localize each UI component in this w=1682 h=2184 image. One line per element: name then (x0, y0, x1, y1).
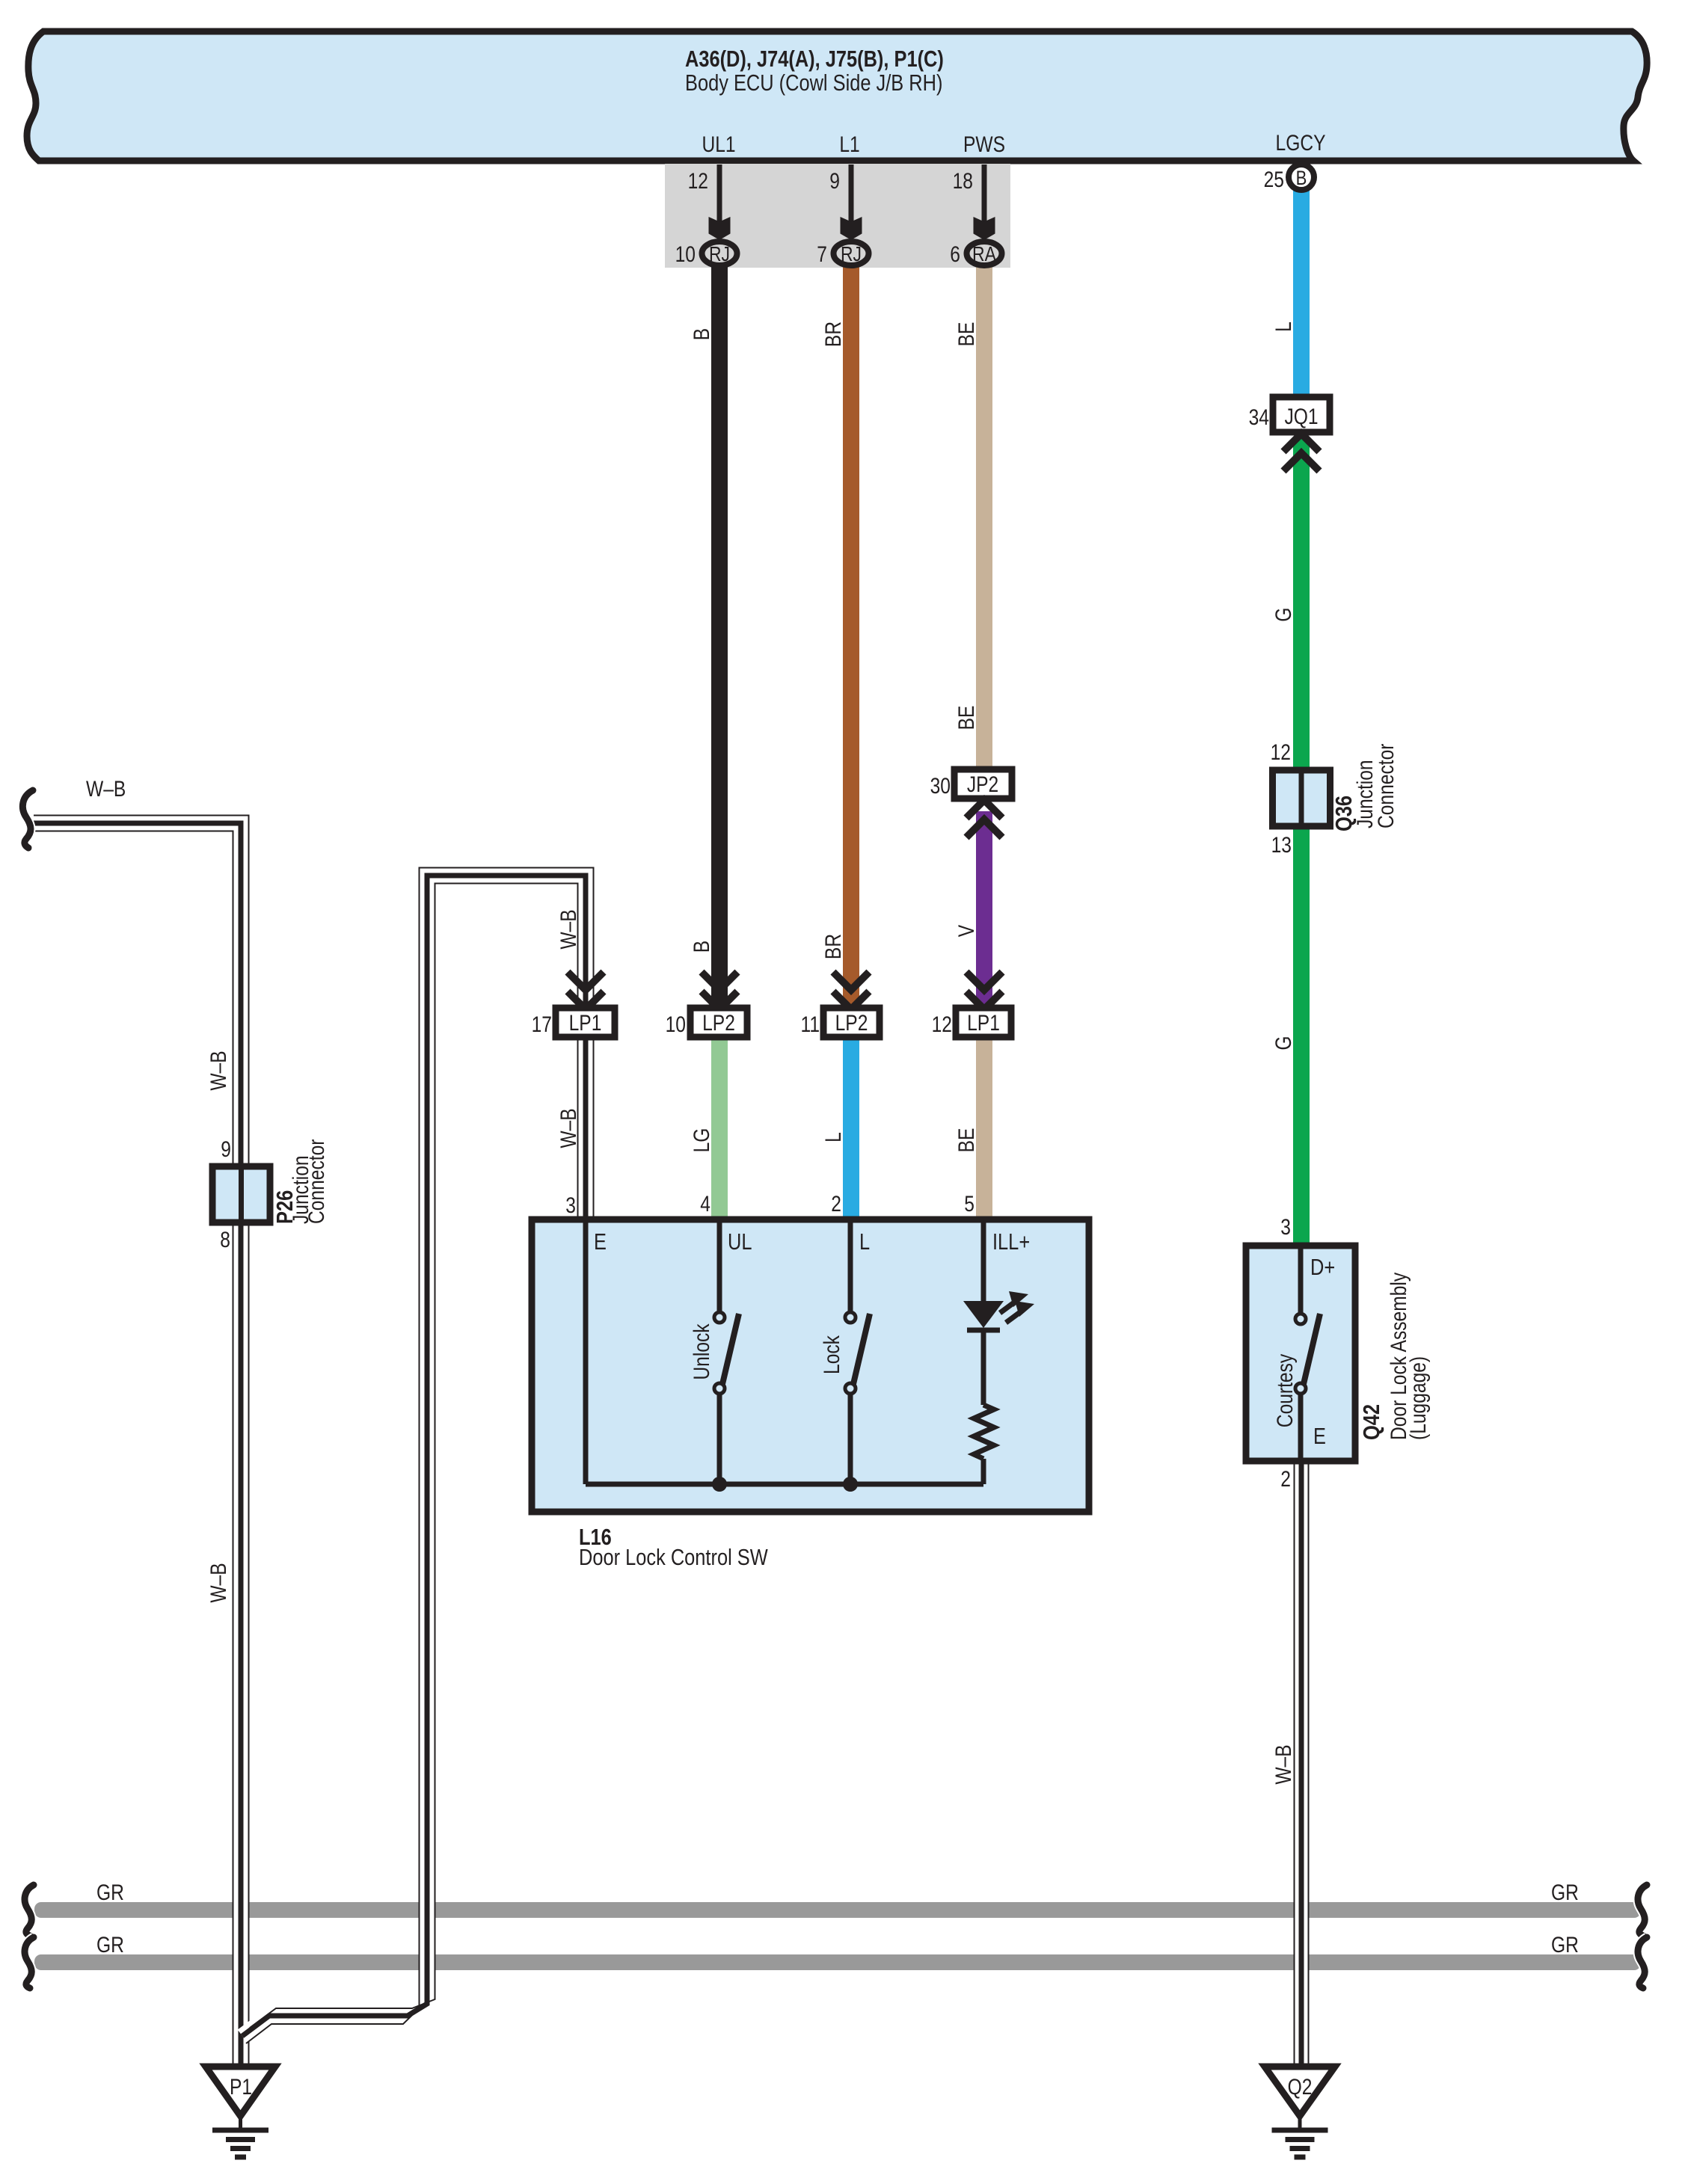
svg-text:W–B: W–B (86, 776, 126, 802)
svg-text:34: 34 (1249, 404, 1269, 430)
svg-text:LP2: LP2 (702, 1010, 735, 1036)
svg-text:B: B (1296, 167, 1307, 190)
svg-text:18: 18 (953, 168, 973, 194)
svg-text:11: 11 (800, 1012, 820, 1037)
svg-text:(Luggage): (Luggage) (1405, 1356, 1431, 1440)
svg-text:L: L (820, 1132, 846, 1142)
svg-text:G: G (1271, 1036, 1296, 1050)
svg-text:LG: LG (689, 1128, 714, 1153)
svg-text:GR: GR (96, 1880, 124, 1905)
svg-text:9: 9 (829, 168, 840, 194)
svg-text:W–B: W–B (206, 1051, 231, 1090)
svg-text:JP2: JP2 (967, 772, 998, 797)
svg-text:BR: BR (820, 934, 846, 959)
svg-text:13: 13 (1271, 832, 1292, 858)
svg-text:30: 30 (930, 773, 951, 799)
svg-text:12: 12 (932, 1012, 952, 1037)
svg-text:JQ1: JQ1 (1284, 404, 1318, 429)
svg-text:LP1: LP1 (967, 1010, 1000, 1036)
svg-text:Unlock: Unlock (689, 1323, 714, 1379)
svg-text:Connector: Connector (304, 1139, 329, 1224)
svg-text:E: E (594, 1229, 607, 1255)
svg-text:P1: P1 (230, 2074, 252, 2100)
svg-text:L: L (1271, 322, 1296, 332)
svg-text:Courtesy: Courtesy (1272, 1354, 1298, 1428)
svg-text:2: 2 (831, 1191, 841, 1216)
svg-text:Door Lock Control SW: Door Lock Control SW (579, 1545, 768, 1571)
svg-text:BE: BE (954, 1128, 979, 1153)
svg-text:9: 9 (221, 1136, 231, 1162)
svg-text:V: V (954, 924, 979, 937)
svg-text:W–B: W–B (556, 909, 581, 949)
svg-text:4: 4 (700, 1191, 710, 1216)
svg-text:25: 25 (1264, 167, 1284, 192)
svg-text:GR: GR (96, 1932, 124, 1957)
svg-text:LP1: LP1 (569, 1010, 602, 1036)
svg-text:ILL+: ILL+ (992, 1229, 1030, 1255)
svg-text:L1: L1 (839, 132, 859, 157)
svg-text:E: E (1313, 1424, 1326, 1450)
svg-text:RJ: RJ (709, 243, 730, 266)
svg-text:UL: UL (728, 1229, 752, 1255)
svg-text:BR: BR (820, 322, 846, 347)
svg-text:A36(D), J74(A), J75(B), P1(C): A36(D), J74(A), J75(B), P1(C) (685, 46, 944, 73)
svg-text:GR: GR (1551, 1932, 1579, 1957)
svg-text:6: 6 (950, 242, 960, 267)
svg-text:2: 2 (1280, 1466, 1291, 1492)
svg-text:W–B: W–B (206, 1563, 231, 1602)
svg-text:Q2: Q2 (1288, 2074, 1313, 2100)
svg-text:5: 5 (964, 1191, 974, 1216)
svg-text:Lock: Lock (819, 1335, 844, 1374)
svg-text:12: 12 (688, 168, 708, 194)
svg-text:UL1: UL1 (702, 132, 735, 157)
svg-text:7: 7 (817, 242, 827, 267)
svg-text:17: 17 (532, 1012, 552, 1037)
svg-text:LGCY: LGCY (1276, 130, 1326, 156)
svg-text:B: B (689, 328, 714, 340)
svg-text:LP2: LP2 (835, 1010, 868, 1036)
svg-text:W–B: W–B (1271, 1744, 1296, 1784)
svg-text:10: 10 (675, 242, 696, 267)
svg-text:GR: GR (1551, 1880, 1579, 1905)
svg-text:B: B (689, 941, 714, 953)
svg-text:3: 3 (1280, 1214, 1291, 1240)
svg-text:Q42: Q42 (1359, 1404, 1385, 1440)
svg-text:D+: D+ (1310, 1255, 1335, 1281)
svg-text:8: 8 (220, 1227, 230, 1252)
svg-text:BE: BE (954, 322, 979, 347)
svg-text:PWS: PWS (963, 132, 1005, 157)
svg-text:Body ECU (Cowl Side J/B RH): Body ECU (Cowl Side J/B RH) (685, 70, 942, 96)
svg-text:10: 10 (666, 1012, 686, 1037)
svg-text:12: 12 (1271, 739, 1291, 765)
svg-text:G: G (1271, 607, 1296, 621)
svg-text:RA: RA (972, 243, 997, 266)
svg-text:RJ: RJ (841, 243, 862, 266)
svg-text:W–B: W–B (556, 1108, 581, 1148)
svg-text:BE: BE (954, 706, 979, 730)
svg-text:L: L (859, 1229, 870, 1255)
svg-text:3: 3 (565, 1193, 576, 1218)
svg-text:Connector: Connector (1373, 744, 1399, 828)
